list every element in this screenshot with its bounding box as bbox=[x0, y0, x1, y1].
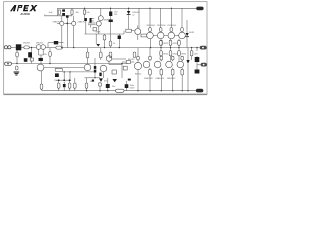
svg-text:MUR: MUR bbox=[189, 32, 194, 34]
svg-text:2N5401: 2N5401 bbox=[36, 43, 44, 45]
svg-text:2SA1943: 2SA1943 bbox=[155, 77, 164, 80]
svg-text:2SA970: 2SA970 bbox=[53, 21, 61, 24]
svg-text:1W: 1W bbox=[114, 14, 117, 16]
svg-text:0R22: 0R22 bbox=[173, 43, 179, 45]
svg-text:2SC5200: 2SC5200 bbox=[167, 25, 177, 27]
svg-text:1mF: 1mF bbox=[49, 12, 54, 14]
svg-text:BD139: BD139 bbox=[128, 59, 135, 61]
svg-text:0R22: 0R22 bbox=[163, 53, 169, 55]
svg-text:15V: 15V bbox=[114, 11, 118, 13]
svg-text:0R22: 0R22 bbox=[163, 43, 169, 45]
svg-text:0R22: 0R22 bbox=[173, 53, 179, 55]
svg-text:2SA970: 2SA970 bbox=[78, 21, 86, 24]
svg-text:250V: 250V bbox=[130, 88, 135, 90]
svg-text:2SC5200: 2SC5200 bbox=[157, 25, 167, 27]
svg-text:BD140: BD140 bbox=[135, 74, 142, 76]
svg-text:AUDIO: AUDIO bbox=[20, 12, 29, 16]
svg-text:MJE350: MJE350 bbox=[104, 19, 112, 21]
svg-text:330R: 330R bbox=[95, 32, 100, 34]
svg-text:2SA1943: 2SA1943 bbox=[167, 77, 176, 80]
svg-text:10R: 10R bbox=[194, 53, 198, 55]
svg-text:2N5401: 2N5401 bbox=[23, 43, 31, 45]
svg-text:0R22: 0R22 bbox=[181, 53, 187, 55]
svg-text:2SC5200: 2SC5200 bbox=[146, 25, 156, 27]
svg-text:2SA1943: 2SA1943 bbox=[144, 77, 153, 80]
